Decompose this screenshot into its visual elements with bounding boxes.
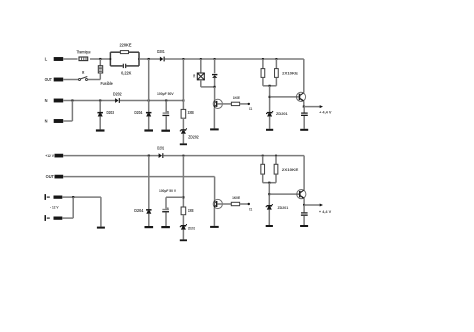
svg-text:+ 4,4 V: + 4,4 V — [319, 209, 332, 214]
svg-text:D204: D204 — [134, 110, 142, 115]
svg-text:ZD202: ZD202 — [188, 134, 199, 139]
svg-text:1K0E: 1K0E — [233, 95, 240, 100]
svg-text:330E: 330E — [188, 208, 194, 213]
svg-text:2X10KE: 2X10KE — [282, 71, 298, 76]
svg-text:OUT: OUT — [45, 77, 53, 82]
svg-text:N: N — [45, 98, 48, 103]
svg-text:C1: C1 — [249, 207, 253, 212]
svg-text:+ 4,4 V: + 4,4 V — [319, 110, 332, 115]
svg-text:R: R — [193, 74, 195, 79]
svg-text:N: N — [45, 119, 48, 124]
svg-text:ZD201: ZD201 — [276, 111, 288, 116]
svg-text:1K0E: 1K0E — [232, 195, 240, 200]
svg-text:D201: D201 — [157, 49, 165, 54]
svg-text:330E: 330E — [188, 110, 194, 115]
svg-text:+12 V: +12 V — [45, 153, 54, 158]
svg-text:C1: C1 — [249, 106, 253, 111]
svg-text:Thermique: Thermique — [77, 49, 91, 54]
svg-text:R: R — [82, 70, 84, 75]
svg-text:ZD202: ZD202 — [188, 226, 195, 231]
svg-text:ZD201: ZD201 — [278, 205, 289, 210]
svg-text:D201: D201 — [157, 146, 164, 151]
svg-text:Fusible: Fusible — [101, 81, 114, 86]
svg-text:2X10KE: 2X10KE — [282, 167, 299, 172]
svg-text:0,22K: 0,22K — [121, 70, 131, 75]
svg-text:D202: D202 — [113, 92, 122, 97]
svg-text:100µF 50 V: 100µF 50 V — [159, 188, 176, 193]
svg-text:D204: D204 — [134, 208, 144, 213]
svg-text:- 12 V: - 12 V — [50, 205, 59, 210]
svg-text:100µF 50V: 100µF 50V — [157, 91, 174, 96]
svg-text:OUT: OUT — [46, 174, 55, 179]
svg-text:220KE: 220KE — [119, 43, 131, 48]
svg-text:L: L — [45, 57, 48, 62]
svg-text:D203: D203 — [107, 110, 115, 115]
